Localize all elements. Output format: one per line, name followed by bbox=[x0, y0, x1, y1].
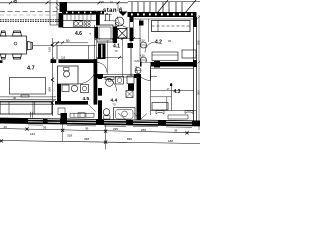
kitchen sink bowls bbox=[74, 22, 78, 26]
sofa cushion division a bbox=[8, 102, 10, 115]
svg-text:164: 164 bbox=[30, 132, 35, 136]
left edge tick mark bbox=[0, 60, 3, 63]
jamb projection line bbox=[117, 3, 119, 11]
wardrobe room 4.2 bbox=[152, 21, 191, 32]
projection line 4.2 west b bbox=[148, 19, 150, 42]
wardrobe dashed center line bbox=[152, 25, 191, 27]
living-hall partition double line bbox=[94, 25, 96, 66]
dining table bbox=[0, 36, 27, 54]
right wall black segment 1 bbox=[193, 17, 197, 27]
bed 4.3 pillow b bbox=[185, 111, 193, 114]
bed 4.3 pillow a bbox=[156, 111, 164, 115]
top dimension line bbox=[0, 2, 128, 4]
dim line from table to room bbox=[33, 45, 57, 47]
section marker circle 1 bbox=[141, 42, 147, 48]
bed 4.3 foot line bbox=[151, 90, 194, 92]
sofa cushion division b bbox=[32, 102, 34, 115]
svg-text:36: 36 bbox=[174, 129, 178, 133]
svg-text:4.2: 4.2 bbox=[155, 40, 162, 46]
bathroom west wall bbox=[57, 84, 61, 105]
entrance door jambs and steps bbox=[105, 14, 107, 21]
bathroom east wall bbox=[94, 59, 98, 105]
kitchen left black column bbox=[59, 13, 64, 28]
svg-text:4.7: 4.7 bbox=[27, 66, 35, 72]
bath 4.4 west wall bbox=[98, 88, 102, 121]
bathroom sink bbox=[71, 85, 77, 91]
D2 tick at 104 bbox=[104, 140, 107, 143]
bathroom south wall bbox=[55, 101, 88, 105]
kitchen counter row bbox=[63, 20, 97, 27]
hall dim ticks bbox=[95, 37, 135, 40]
window white slits bbox=[28, 119, 192, 124]
window sill lines bbox=[28, 125, 192, 127]
svg-text:m: m bbox=[89, 33, 91, 36]
dresser room 4.3 bbox=[152, 103, 168, 111]
svg-text:4.3: 4.3 bbox=[174, 89, 181, 95]
tick above stan 6 b bbox=[117, 1, 120, 4]
door corner mark 4.3 bbox=[151, 76, 158, 78]
wardrobe divider bbox=[157, 21, 159, 32]
right dim ticks bbox=[198, 16, 200, 124]
balcony railing dashed line b bbox=[0, 21, 59, 23]
window opening zigzag bbox=[134, 114, 147, 120]
svg-text:45: 45 bbox=[13, 0, 17, 4]
hall-bath wall stub left bbox=[97, 74, 103, 78]
right exterior wall line a bbox=[193, 17, 195, 121]
svg-text:830: 830 bbox=[127, 137, 132, 141]
vestibule closet outline bbox=[97, 25, 113, 42]
bath 4.4 sink cabinet bbox=[105, 77, 114, 80]
top dimension tick a bbox=[9, 1, 12, 4]
bed 4.3 divider bbox=[171, 83, 173, 111]
kitchen upper cabinet dividers bbox=[67, 14, 91, 20]
vestibule right wall bbox=[130, 17, 134, 22]
right dimension line bbox=[198, 15, 200, 130]
hall top dimension line bbox=[94, 38, 141, 40]
sofa back line bbox=[0, 104, 52, 106]
svg-text:4.6: 4.6 bbox=[75, 31, 82, 37]
terrace threshold line bbox=[50, 24, 59, 26]
living room shelf line b bbox=[0, 99, 56, 101]
hall west projection line bbox=[107, 40, 109, 74]
kitchen sink unit bbox=[74, 21, 84, 27]
wc toilet bbox=[64, 71, 70, 77]
entrance arrow triangle bbox=[119, 12, 128, 17]
living room shelf line a bbox=[0, 96, 56, 98]
projection line 4.2 west bbox=[139, 19, 141, 62]
center room divider line bbox=[88, 46, 90, 60]
svg-text:318: 318 bbox=[67, 133, 72, 137]
vestibule closet inner bbox=[99, 27, 111, 40]
small verticals above band near sofa bbox=[30, 112, 32, 118]
hall closet white slit bbox=[101, 45, 102, 59]
left vertical dimension line bbox=[52, 38, 54, 116]
bath 4.4 sink bbox=[106, 79, 114, 87]
small box above window 3 bbox=[78, 113, 85, 118]
dim line above center room bbox=[53, 42, 88, 44]
kitchen stove burners bbox=[84, 21, 87, 24]
center room thick south wall bbox=[51, 59, 97, 63]
hall mid dimension line bbox=[96, 57, 123, 59]
bed 4.3 head line bbox=[151, 110, 197, 112]
party wall column top bbox=[60, 2, 68, 12]
hall closet dark bbox=[98, 44, 106, 60]
top dimension tick b bbox=[46, 1, 49, 4]
bed small mark bbox=[170, 84, 172, 87]
D1 bowtie ticks bbox=[25, 127, 188, 134]
bath 4.4 door arc bbox=[103, 78, 117, 92]
dining chair top b bbox=[13, 31, 22, 36]
wall 4.4-4.3 bbox=[137, 77, 142, 121]
vestibule mid wall bbox=[113, 27, 117, 44]
hall-bath wall stub right bbox=[134, 74, 141, 78]
svg-text:K20: K20 bbox=[140, 54, 145, 58]
vestibule black pier bottom bbox=[128, 43, 134, 48]
radiator left window bbox=[70, 113, 94, 117]
wall face line below 4.2-4.3 wall bbox=[150, 68, 193, 70]
dash-dot roof line bbox=[0, 11, 60, 13]
dimension line D2 bbox=[0, 141, 200, 144]
main top wall kitchen section hatched bbox=[62, 11, 104, 15]
vestibule left wall stub bbox=[96, 12, 100, 25]
washing machine bbox=[81, 85, 89, 93]
entrance door swing arc bbox=[118, 17, 129, 28]
nightstand 4.2 bbox=[182, 50, 196, 58]
svg-text:K20: K20 bbox=[140, 39, 145, 43]
bath 4.4 duct black bar bbox=[128, 84, 134, 91]
section marker circle 3 bbox=[135, 68, 141, 74]
svg-text:250: 250 bbox=[141, 128, 146, 132]
faint overhang dashed line bbox=[0, 14, 60, 16]
center room outline bbox=[57, 46, 96, 63]
svg-text:K20: K20 bbox=[135, 59, 140, 63]
main top wall right section hatched bbox=[128, 12, 197, 17]
balcony railing dashed line a bbox=[0, 19, 59, 21]
dining chair top a bbox=[1, 31, 7, 36]
door 4.3 leaf bbox=[150, 66, 152, 81]
svg-text:36: 36 bbox=[85, 127, 89, 131]
tv stand mark bbox=[21, 95, 29, 97]
svg-text:352: 352 bbox=[197, 90, 201, 95]
D2 end tick bbox=[0, 139, 3, 142]
stair treads above corridor bbox=[132, 2, 182, 12]
bath 4.4 washer box bbox=[116, 77, 124, 85]
left dim bowtie ticks bbox=[51, 43, 54, 106]
stair arrow diagonal a bbox=[157, 0, 168, 13]
projection line below band left bbox=[62, 124, 64, 142]
hall-living door arc bbox=[97, 63, 107, 73]
right wall black segment 2 bbox=[193, 60, 197, 67]
svg-text:4.1: 4.1 bbox=[113, 44, 120, 50]
thick wall 4.2-4.3 bbox=[140, 62, 197, 67]
bath 4.4 upper cabinet box bbox=[127, 76, 134, 84]
wc door swing arc bbox=[78, 66, 96, 84]
side table bbox=[58, 108, 65, 115]
door swing 4.2 bbox=[145, 42, 156, 53]
dining table center knot bbox=[14, 42, 17, 45]
svg-text:265: 265 bbox=[197, 40, 201, 45]
hall east projection line bbox=[122, 38, 124, 76]
dining chair right bbox=[28, 42, 33, 51]
hall east wall line bbox=[130, 41, 132, 76]
right exterior wall line b bbox=[196, 17, 198, 121]
dimension line D1 bbox=[0, 129, 200, 133]
bathroom cabinet bbox=[62, 85, 69, 92]
svg-text:20: 20 bbox=[4, 125, 8, 129]
dining chairs bottom bbox=[1, 54, 7, 59]
svg-text:40: 40 bbox=[13, 96, 17, 100]
window mid pier above band bbox=[61, 113, 68, 119]
bottom exterior wall band bbox=[0, 118, 200, 127]
svg-text:368: 368 bbox=[84, 137, 89, 141]
toilet 4.4 bbox=[103, 109, 110, 116]
tick above stan 6 a bbox=[98, 1, 101, 4]
svg-text:36: 36 bbox=[43, 126, 47, 130]
kitchen-closet wall stub bbox=[95, 27, 99, 38]
corridor top line bbox=[128, 1, 200, 3]
party wall hatch stub bbox=[56, 3, 60, 10]
bath 4.4 west wall upper stub bbox=[98, 74, 102, 79]
dresser room 4.2 bbox=[152, 52, 178, 61]
svg-text:188: 188 bbox=[168, 139, 173, 143]
kitchen upper cabinet row bbox=[63, 14, 97, 20]
projection line below band center bbox=[105, 125, 107, 150]
sofa outline bbox=[0, 102, 52, 115]
svg-text:225: 225 bbox=[113, 127, 118, 131]
terrace edge vertical line b bbox=[56, 0, 58, 25]
svg-text:160: 160 bbox=[48, 47, 52, 52]
inner wall face line below hatched wall bbox=[133, 18, 193, 20]
svg-text:110: 110 bbox=[61, 56, 66, 60]
svg-text:368: 368 bbox=[48, 87, 52, 92]
projection line 4.3 west bbox=[150, 70, 152, 115]
tv cabinet living bbox=[10, 78, 46, 95]
dim tick near room corner bbox=[56, 42, 59, 45]
hall-bath wall lines bbox=[97, 74, 141, 76]
stair arrow diagonal b bbox=[185, 0, 196, 13]
bath 4.4 shower box bbox=[126, 91, 133, 98]
black pier near wardrobe bbox=[139, 21, 144, 26]
radiator right window bbox=[168, 115, 188, 119]
shoe cabinet X box bbox=[118, 29, 128, 39]
terrace edge vertical line a bbox=[49, 0, 51, 25]
bath door swing diagonal bbox=[89, 105, 96, 112]
wc room outline bbox=[58, 66, 79, 84]
svg-text:90: 90 bbox=[66, 39, 70, 43]
vestibule lamp circles bbox=[115, 17, 124, 26]
door 4.3 swing arc bbox=[136, 66, 151, 81]
door pier bulge bbox=[154, 61, 160, 68]
door swing diagonal bottom bbox=[118, 113, 126, 120]
section marker circle 2 bbox=[141, 57, 147, 63]
kitchen counter front line bbox=[62, 27, 97, 29]
bathtub 4.4 bbox=[114, 108, 136, 122]
